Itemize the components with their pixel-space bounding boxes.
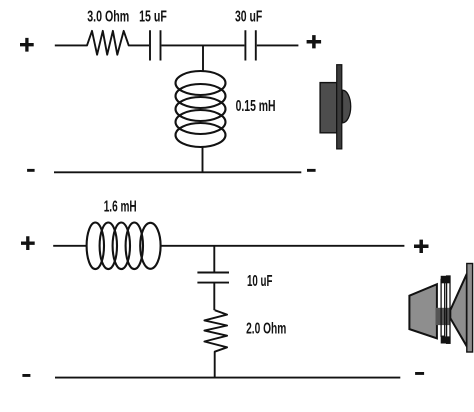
svg-text:3.0 Ohm: 3.0 Ohm: [87, 9, 129, 26]
svg-text:2.0 Ohm: 2.0 Ohm: [246, 321, 286, 338]
svg-text:15 uF: 15 uF: [139, 9, 167, 26]
svg-text:0.15 mH: 0.15 mH: [236, 98, 276, 115]
svg-text:10 uF: 10 uF: [247, 273, 273, 290]
svg-text:30 uF: 30 uF: [235, 9, 262, 26]
svg-text:1.6 mH: 1.6 mH: [104, 199, 137, 216]
